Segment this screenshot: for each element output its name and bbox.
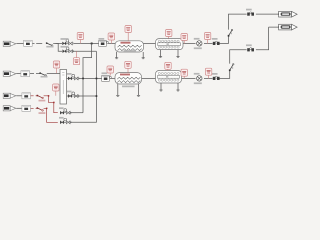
probe line L13 xyxy=(183,76,185,78)
row A wires xyxy=(16,72,60,74)
wire branch2 drop xyxy=(58,43,62,51)
probe line L4 xyxy=(168,37,170,39)
port Vout2 xyxy=(279,24,298,30)
wire xyxy=(108,42,115,44)
label L11 xyxy=(53,84,59,91)
port Vout1 xyxy=(279,11,298,17)
amp pair A2 xyxy=(99,38,109,46)
wire xyxy=(110,77,115,79)
amp pair B3 xyxy=(59,107,71,114)
TOP CHAIN xyxy=(17,36,229,51)
wire staircase J1 to bottom xyxy=(83,43,92,112)
probe line L6 xyxy=(207,39,209,44)
wire xyxy=(17,42,25,44)
wire xyxy=(204,42,213,44)
node J1 xyxy=(91,43,93,45)
wire xyxy=(74,42,99,44)
mixer U2 xyxy=(194,38,202,49)
node port2 xyxy=(278,26,280,28)
probe line L7 xyxy=(56,68,58,73)
switch SW-b red xyxy=(37,95,46,102)
isolator A3 xyxy=(212,38,220,45)
wire xyxy=(79,77,103,79)
RIGHT SIDE xyxy=(220,14,279,78)
switch SW-a xyxy=(39,72,47,77)
label L12 xyxy=(165,62,171,69)
ground stub F1 right xyxy=(142,52,144,58)
amp A1 xyxy=(24,40,33,46)
amp pair B2 xyxy=(67,91,79,98)
wire port1 line xyxy=(229,14,247,30)
switch SW2 xyxy=(228,29,233,36)
wire xyxy=(67,77,68,79)
ground stub F2 left xyxy=(117,84,119,95)
wire row2 xyxy=(67,95,68,97)
ground stub U3 right xyxy=(177,83,179,90)
wire xyxy=(47,72,60,74)
node J3 xyxy=(96,78,98,80)
wire xyxy=(220,36,229,43)
wire branch2 xyxy=(73,50,97,52)
filter F1 xyxy=(115,41,144,52)
amp A-b xyxy=(22,93,31,99)
red node xyxy=(53,102,55,104)
port RFin P1 xyxy=(3,41,16,46)
switch SW3 xyxy=(229,63,234,71)
wire xyxy=(220,71,230,79)
red wire row C xyxy=(31,107,38,109)
port SRC-A xyxy=(3,71,16,76)
isolator A5 bottom xyxy=(246,44,254,51)
wire xyxy=(16,72,21,74)
BOTTOM CHAIN (y=78.4) xyxy=(67,51,213,122)
wire row2 xyxy=(79,95,97,97)
label L1 xyxy=(77,33,83,40)
wire xyxy=(230,50,247,64)
red wire row C route xyxy=(44,108,58,122)
label L3 xyxy=(125,26,131,33)
amp pair B4 xyxy=(59,117,71,124)
row B: port SRC-B xyxy=(3,93,16,98)
SAW box U3 xyxy=(156,71,182,84)
wire xyxy=(256,13,279,15)
wire xyxy=(16,107,22,109)
probe line L11 xyxy=(55,91,57,96)
label L14 xyxy=(205,68,211,75)
ground stub F1 left xyxy=(116,52,118,58)
amp pair A6 xyxy=(102,72,112,81)
wire xyxy=(142,77,156,79)
probe line L14 xyxy=(208,75,210,78)
red wire row B xyxy=(31,95,38,97)
red node xyxy=(46,108,48,110)
wire row3 out xyxy=(69,112,83,114)
label L8 xyxy=(73,58,79,65)
probe line L8 xyxy=(76,51,78,58)
amp pair B1 xyxy=(67,73,79,80)
tall box MUX xyxy=(60,70,67,105)
isolator A7 xyxy=(212,73,220,80)
probe line L1 xyxy=(80,40,82,44)
wire port2 line xyxy=(256,27,279,50)
SAW box U1 xyxy=(156,39,184,50)
wire xyxy=(182,77,196,79)
ground stub F2 right xyxy=(138,84,140,95)
wire xyxy=(204,77,213,79)
label L4 xyxy=(166,30,172,37)
switch SW-c red xyxy=(37,107,46,114)
filter F2 xyxy=(115,73,142,88)
wire xyxy=(16,95,22,97)
wire xyxy=(56,42,63,44)
switch SW1 xyxy=(46,42,58,47)
amp A-c xyxy=(22,105,31,111)
node J4 xyxy=(96,95,98,97)
label L5 xyxy=(181,34,187,41)
probe line L3 xyxy=(127,33,129,41)
long vertical branch2 feed xyxy=(69,51,96,122)
red node xyxy=(48,95,50,97)
ground stub U3 left xyxy=(160,83,162,90)
wire xyxy=(32,42,43,44)
amp A-a xyxy=(21,71,30,77)
node port1 xyxy=(278,13,280,15)
node J2 xyxy=(82,78,84,80)
label L6 xyxy=(204,33,210,40)
label L2 xyxy=(108,33,114,40)
probe line L2 xyxy=(110,40,112,43)
mixer U4 xyxy=(194,73,202,84)
ground stub U1 left xyxy=(160,50,162,57)
probe line L12 xyxy=(167,69,169,71)
label L10 xyxy=(125,61,131,68)
wire xyxy=(30,72,40,74)
probe line L9 xyxy=(109,73,111,76)
red wire row B route xyxy=(44,96,58,113)
mixer pair MX2 xyxy=(61,46,74,53)
label L7 xyxy=(53,61,59,68)
wire xyxy=(183,42,196,44)
row C: port SRC-C xyxy=(3,106,16,111)
mixer pair MX1 xyxy=(61,38,74,45)
label L9 xyxy=(107,66,113,73)
label L13 xyxy=(181,69,187,76)
probe line L5 xyxy=(183,41,185,44)
ground stub U1 right xyxy=(177,50,179,57)
isolator A4 top xyxy=(246,9,254,16)
wire xyxy=(144,42,156,44)
probe line L10 xyxy=(127,69,129,73)
